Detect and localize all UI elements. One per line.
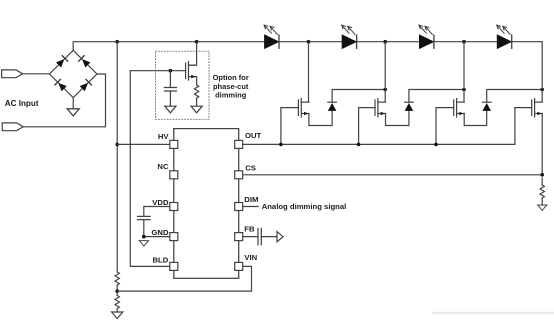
diode D10 (bypass stage 2) <box>405 102 414 111</box>
svg-text:AC Input: AC Input <box>5 99 39 108</box>
ground below bridge <box>67 109 79 116</box>
diode D9 (bypass stage 1) <box>328 102 337 111</box>
capacitor C2 (VDD bypass) <box>138 216 151 219</box>
wire: HV pin to divider line <box>117 143 170 145</box>
AC input terminal 1 (upper plug) <box>2 70 23 78</box>
ground below R3 <box>191 106 202 113</box>
wire: option MOSFET source down to resistor R3 <box>196 77 198 85</box>
wire: VDD pin to capacitor C2 <box>144 207 170 217</box>
wire: R4 to ground <box>541 178 543 185</box>
bridge diode D3 (bottom-left edge) <box>55 79 67 91</box>
transistor Q2 <box>375 99 386 117</box>
wire: junction down to capacitor C1 <box>169 71 171 88</box>
transistor Q5 (phase-cut dimmer MOSFET) <box>186 62 197 80</box>
capacitor C1 (option box) <box>164 88 176 92</box>
wire: tap 2 down to Q2 drain <box>384 42 386 102</box>
pin OUT <box>235 140 243 148</box>
svg-text:dimming: dimming <box>215 91 247 100</box>
svg-text:phase-cut: phase-cut <box>213 82 249 91</box>
node: divider tap dot <box>115 289 119 293</box>
node: D10/tap3 dot <box>462 88 466 92</box>
ground below divider <box>112 312 123 319</box>
LED D6 <box>342 25 357 48</box>
transistor Q3 <box>454 99 465 117</box>
wire: final vertical line from top rail to Q4 drain <box>541 42 543 102</box>
node: junction dot top rail / option MOSFET drain <box>195 40 199 44</box>
watermark remnant <box>432 312 554 315</box>
node: junction dot at HV pin wire <box>115 143 119 147</box>
wire: R2 to ground <box>116 309 118 312</box>
capacitor C3 (FB) <box>258 229 261 245</box>
LED D8 <box>497 25 512 48</box>
svg-text:Analog dimming signal: Analog dimming signal <box>262 202 347 211</box>
LED D7 <box>419 25 434 48</box>
bridge rectifier diamond wires <box>50 50 97 97</box>
wire: R1 to node <box>116 285 118 295</box>
wire: option MOSFET drain from top rail <box>189 42 197 65</box>
svg-text:DIM: DIM <box>244 195 258 204</box>
svg-text:HV: HV <box>158 132 170 141</box>
wire: lower terminal right and up to bridge right node <box>23 74 105 127</box>
ground at GND pin <box>139 241 148 246</box>
op-amp U1 IC body outline <box>174 129 239 279</box>
wire: Q2 gate drop to OUT rail <box>359 108 375 145</box>
wire: DIM pin stub <box>243 206 258 208</box>
wire: HV divider vertical line down to resistor chain <box>116 42 118 272</box>
bridge diode D4 (bottom-right edge) <box>79 79 91 91</box>
wire: option MOSFET gate to BLD line <box>130 70 185 72</box>
node: gate 1 dot on OUT rail <box>279 143 283 147</box>
pin BLD <box>170 262 178 270</box>
wire: D10 cathode up and right to tap 3 <box>409 90 464 103</box>
wire: Q1 gate drop to OUT rail <box>281 108 299 145</box>
resistor R2 (lower divider) <box>115 295 119 308</box>
node: D9/tap2 dot <box>383 88 387 92</box>
wire: Q2 source to diode D10 <box>386 111 409 126</box>
wire: FB pin to capacitor C3 <box>243 236 258 238</box>
wire: Q4 source down to CS rail <box>541 114 543 175</box>
wire: divider tap rail to VIN pin <box>117 266 251 291</box>
node FB signal arrow <box>277 232 283 242</box>
node: tap 2 dot <box>383 40 387 44</box>
wire: Q3 gate drop to OUT rail <box>436 108 454 145</box>
pin NC <box>170 171 178 179</box>
wire: capacitor C1 to ground <box>169 91 171 106</box>
node: gate 3 dot on OUT rail <box>434 143 438 147</box>
svg-text:BLD: BLD <box>152 256 168 265</box>
node: gate 2 dot on OUT rail <box>357 143 361 147</box>
node: D11/final line dot <box>540 88 544 92</box>
wire: C2 to GND node <box>143 220 145 237</box>
LED D5 <box>264 25 279 48</box>
wire: C3 to arrow <box>261 236 277 238</box>
wire: upper terminal to bridge left node <box>23 73 50 75</box>
wire: Q4 gate stub <box>515 107 532 109</box>
wire: CS rail to sense resistor <box>243 174 542 176</box>
svg-text:NC: NC <box>157 162 169 171</box>
wire: BLD line (gate line) vertical <box>130 71 170 267</box>
ground below R4 <box>538 205 547 210</box>
wire: D9 cathode up and right to tap 2 <box>332 90 385 103</box>
pin HV <box>170 140 178 148</box>
ground below C1 <box>165 106 176 113</box>
wire: Q1 source to diode D9 <box>309 111 332 126</box>
diode D11 (bypass stage 3) <box>482 102 491 111</box>
wire: R3 to ground <box>196 98 198 106</box>
dotted option box <box>156 51 210 119</box>
wire: OUT rail to MOSFET gates <box>243 108 515 145</box>
wire: GND pin to node <box>144 236 170 238</box>
wire: Q3 source to diode D11 <box>464 111 487 126</box>
transistor Q1 <box>298 99 309 117</box>
resistor R4 (current sense) <box>540 185 544 198</box>
node: GND junction dot <box>142 235 146 239</box>
svg-text:VDD: VDD <box>152 198 169 207</box>
resistor R1 (upper divider) <box>115 272 119 285</box>
pin DIM <box>235 203 243 211</box>
svg-text:GND: GND <box>151 228 169 237</box>
wire: top rectified rail from bridge top to far right <box>73 42 542 51</box>
pin GND <box>170 233 178 241</box>
pin CS <box>235 171 243 179</box>
svg-text:OUT: OUT <box>245 131 262 140</box>
svg-text:Option for: Option for <box>213 73 249 82</box>
transistor Q4 <box>532 99 543 117</box>
pin VIN <box>235 262 243 270</box>
svg-text:CS: CS <box>245 163 256 172</box>
pin VDD <box>170 203 178 211</box>
bridge diode D1 (left-top edge) <box>56 56 68 68</box>
node: junction dot top rail / HV divider line <box>115 40 119 44</box>
wire: tap 1 down to Q1 drain <box>308 42 310 102</box>
AC input terminal 2 (lower plug) <box>2 123 23 131</box>
wire: D11 cathode up and right to final line <box>487 90 543 103</box>
node: CS sense dot <box>540 173 544 177</box>
node: gate/capacitor junction dot <box>169 69 173 73</box>
svg-text:FB: FB <box>244 225 255 234</box>
svg-text:VIN: VIN <box>244 253 257 262</box>
node: tap 1 dot <box>307 40 311 44</box>
bridge diode D2 (right-top edge) <box>79 56 91 68</box>
wire: bridge bottom to ground <box>72 98 74 109</box>
pin FB <box>235 233 243 241</box>
wire: tap 3 down to Q3 drain <box>463 42 465 102</box>
node: tap 3 dot <box>462 40 466 44</box>
resistor R3 (option box) <box>194 85 198 98</box>
